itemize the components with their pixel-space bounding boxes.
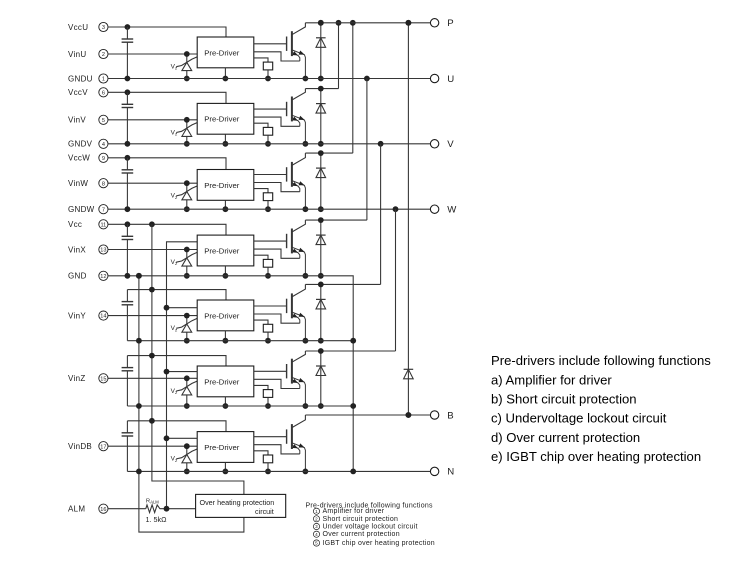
- svg-text:Pre-Driver: Pre-Driver: [204, 311, 239, 320]
- pin 11 Vcc: [68, 220, 108, 229]
- svg-text:VinY: VinY: [68, 311, 86, 320]
- zener diode VzY: [171, 313, 198, 344]
- wire VinX line: [108, 249, 197, 251]
- svg-text:VinW: VinW: [68, 179, 88, 188]
- diode DV (freewheel): [316, 86, 326, 147]
- wire VinZ line: [108, 377, 197, 379]
- wire VinY line: [108, 315, 197, 317]
- svg-text:VinX: VinX: [68, 245, 86, 254]
- wire DB emitter-drive route: [254, 445, 300, 454]
- svg-text:2: 2: [315, 517, 318, 522]
- capacitor CDB: [122, 421, 134, 472]
- wire VccV rail: [108, 91, 127, 93]
- wire GNDW / W output rail: [108, 208, 430, 210]
- wire Z collector feed from upper rail: [395, 209, 397, 351]
- terminal W: [430, 205, 457, 216]
- svg-text:circuit: circuit: [255, 507, 274, 516]
- capacitor CX: [122, 224, 134, 275]
- svg-text:Pre-Driver: Pre-Driver: [204, 115, 239, 124]
- svg-text:7: 7: [102, 207, 105, 213]
- svg-text:d) Over current protection: d) Over current protection: [491, 430, 640, 445]
- svg-text:N: N: [447, 467, 454, 478]
- svg-text:11: 11: [100, 222, 106, 228]
- wire W emitter-drive route: [254, 183, 300, 192]
- pin 7 GNDW: [68, 205, 108, 214]
- zener diode VzU: [171, 51, 198, 81]
- svg-text:IGBT chip over heating protect: IGBT chip over heating protection: [323, 540, 435, 547]
- svg-text:VinV: VinV: [68, 116, 86, 125]
- svg-text:VccU: VccU: [68, 23, 88, 32]
- node W collector bus: [305, 152, 352, 154]
- svg-text:3: 3: [102, 25, 105, 31]
- wire ALM node to overheat box: [160, 508, 196, 510]
- transistor QY (IGBT): [254, 284, 308, 343]
- svg-text:ALM: ALM: [68, 505, 85, 514]
- node X collector bus: [305, 219, 367, 221]
- diode DU (freewheel): [316, 20, 326, 82]
- wire ALM bus: [167, 242, 198, 509]
- wire GNDU / U output rail: [108, 78, 430, 80]
- wire Vcc feed row DB: [127, 421, 226, 432]
- wire GND/X emitter rail to N bus: [108, 276, 353, 472]
- svg-text:2: 2: [102, 52, 105, 58]
- zener diode VzX: [171, 247, 198, 279]
- capacitor CY: [122, 290, 134, 341]
- svg-text:12: 12: [100, 274, 106, 280]
- svg-text:GNDV: GNDV: [68, 140, 93, 149]
- wire ALM lead: [108, 508, 146, 510]
- svg-text:VinU: VinU: [68, 50, 86, 59]
- svg-text:Over current protection: Over current protection: [323, 531, 400, 538]
- svg-text:1. 5kΩ: 1. 5kΩ: [146, 515, 168, 524]
- resistor RsV (current sense): [254, 123, 273, 147]
- svg-text:Over heating protection: Over heating protection: [200, 498, 275, 507]
- wire Vcc bus (lower arms): [152, 224, 244, 494]
- wire X collector feed from upper rail: [366, 79, 368, 221]
- svg-text:b) Short circuit protection: b) Short circuit protection: [491, 392, 637, 407]
- wire P feed to W collector: [352, 23, 354, 153]
- terminal V: [430, 139, 454, 150]
- op-amp PDZ (Pre-Driver block): [197, 366, 254, 397]
- wire V emitter-drive route: [254, 117, 300, 126]
- wire ALM tap row DB: [167, 437, 198, 439]
- zener diode VzDB: [171, 443, 198, 474]
- wire GNDV / V output rail: [108, 143, 430, 145]
- svg-text:U: U: [447, 74, 454, 85]
- transistor QZ (IGBT): [254, 351, 308, 409]
- svg-text:VccW: VccW: [68, 154, 90, 163]
- svg-text:14: 14: [100, 314, 106, 320]
- svg-text:VccV: VccV: [68, 88, 88, 97]
- op-amp PDDB (Pre-Driver block): [197, 432, 254, 463]
- capacitor CV: [122, 92, 134, 144]
- svg-text:GNDW: GNDW: [68, 205, 95, 214]
- wire U emitter-drive route: [254, 52, 300, 61]
- svg-text:5: 5: [315, 541, 318, 546]
- pin 17 VinDB: [68, 442, 108, 451]
- svg-text:V: V: [447, 139, 454, 150]
- wire VinU line: [108, 53, 197, 55]
- terminal B: [430, 410, 453, 421]
- svg-text:Short circuit protection: Short circuit protection: [323, 516, 399, 523]
- svg-text:Pre-drivers include following: Pre-drivers include following functions: [491, 353, 711, 368]
- wire VinDB line: [108, 445, 197, 447]
- op-amp PDU (Pre-Driver block): [197, 37, 254, 68]
- wire Z emitter-drive route: [254, 379, 300, 388]
- svg-text:GNDU: GNDU: [68, 74, 93, 83]
- svg-text:e) IGBT chip over heating prot: e) IGBT chip over heating protection: [491, 449, 701, 464]
- pin 12 GND: [68, 271, 108, 280]
- terminal P: [430, 18, 453, 29]
- svg-text:Pre-Driver: Pre-Driver: [204, 48, 239, 57]
- note small text block (pre-driver functions): [306, 502, 435, 547]
- pin 14 VinY: [68, 311, 108, 320]
- pin 4 GNDV: [68, 139, 108, 148]
- svg-text:c) Undervoltage lockout circui: c) Undervoltage lockout circuit: [491, 411, 667, 426]
- pin 3 VccU: [68, 22, 108, 31]
- svg-text:B: B: [447, 410, 453, 421]
- zener diode VzV: [171, 117, 198, 147]
- pin 2 VinU: [68, 49, 108, 58]
- resistor RsDB (current sense): [254, 451, 273, 475]
- wire pre-driver X ground pin: [224, 266, 226, 276]
- wire pre-driver V ground pin: [224, 134, 226, 144]
- pin 5 VinV: [68, 115, 108, 124]
- node Z collector bus: [305, 350, 395, 352]
- zener diode VzW: [171, 180, 198, 212]
- diode DX (freewheel): [316, 217, 326, 278]
- wire ALM tap row Y: [167, 307, 198, 309]
- svg-text:GND: GND: [68, 272, 87, 281]
- wire VccV feed to pre-driver: [127, 92, 226, 103]
- svg-text:4: 4: [102, 142, 105, 148]
- capacitor CU: [122, 27, 134, 79]
- diode DDB (brake) (freewheel): [404, 20, 414, 418]
- wire B rail: [305, 414, 430, 416]
- wire Vcc feed row Y: [127, 290, 226, 300]
- note text block (pre-driver functions): [491, 353, 711, 464]
- wire Z emitter rail: [127, 405, 353, 407]
- resistor RsU (current sense): [254, 58, 273, 82]
- resistor RsZ (current sense): [254, 385, 273, 409]
- svg-text:13: 13: [100, 248, 106, 254]
- wire pre-driver Z ground pin: [224, 397, 226, 406]
- op-amp PDV (Pre-Driver block): [197, 103, 254, 134]
- wire Y emitter-drive route: [254, 314, 300, 323]
- transistor QDB (IGBT): [254, 415, 308, 474]
- wire pre-driver DB ground pin: [224, 462, 226, 471]
- svg-text:W: W: [447, 205, 457, 216]
- wire VccU feed to pre-driver: [127, 27, 226, 37]
- terminal N: [430, 467, 454, 478]
- svg-text:Pre-Driver: Pre-Driver: [204, 377, 239, 386]
- wire N rail / DB emitter rail: [127, 470, 430, 472]
- svg-text:1: 1: [102, 77, 105, 83]
- resistor RsW (current sense): [254, 189, 273, 213]
- wire VinV line: [108, 119, 197, 121]
- svg-text:a) Amplifier for driver: a) Amplifier for driver: [491, 372, 612, 387]
- resistor RsY (current sense): [254, 320, 273, 344]
- svg-text:3: 3: [315, 524, 318, 529]
- wire VccW rail: [108, 157, 127, 159]
- pin 6 VccV: [68, 88, 108, 97]
- wire X emitter-drive route: [254, 249, 300, 258]
- svg-text:ALM: ALM: [150, 499, 159, 504]
- node Y collector bus: [305, 283, 380, 285]
- svg-text:16: 16: [100, 507, 106, 513]
- wire P bus: [305, 22, 430, 24]
- svg-text:8: 8: [102, 181, 105, 187]
- zener diode VzZ: [171, 375, 198, 409]
- svg-text:5: 5: [102, 118, 105, 124]
- resistor RALM 1.5k: [146, 505, 160, 513]
- wire pre-driver U ground pin: [224, 68, 226, 79]
- svg-text:17: 17: [100, 444, 106, 450]
- wire pre-driver W ground pin: [224, 200, 226, 209]
- op-amp PDY (Pre-Driver block): [197, 300, 254, 331]
- transistor QV (IGBT): [254, 89, 308, 147]
- svg-text:Under voltage lockout circuit: Under voltage lockout circuit: [323, 524, 418, 531]
- pin 16 ALM: [99, 504, 108, 513]
- pin 15 VinZ: [68, 374, 108, 383]
- wire Y emitter rail: [127, 340, 353, 342]
- transistor QU (IGBT): [254, 23, 308, 82]
- svg-text:Pre-Driver: Pre-Driver: [204, 246, 239, 255]
- svg-text:Pre-Driver: Pre-Driver: [204, 443, 239, 452]
- capacitor CW: [122, 158, 134, 209]
- over-heating protection circuit U8: [196, 494, 286, 517]
- pin 1 GNDU: [68, 74, 108, 83]
- svg-text:VinDB: VinDB: [68, 442, 92, 451]
- wire Vcc feed row Z: [127, 356, 226, 366]
- transistor QX (IGBT): [254, 220, 308, 279]
- node V collector bus: [305, 88, 338, 90]
- wire ALM tap row Z: [167, 371, 198, 373]
- wire GND bus (lower arms): [139, 276, 244, 532]
- svg-text:6: 6: [102, 90, 105, 96]
- wire Y collector feed from upper rail: [380, 144, 382, 285]
- diode DZ (freewheel): [316, 348, 326, 409]
- svg-text:1: 1: [315, 509, 318, 514]
- svg-text:Vcc: Vcc: [68, 220, 82, 229]
- wire Vcc feed to pre-driver X: [127, 224, 226, 235]
- diode DY (freewheel): [316, 282, 326, 344]
- wire VinW line: [108, 182, 197, 184]
- svg-text:Amplifier for driver: Amplifier for driver: [323, 508, 385, 515]
- pin 8 VinW: [68, 179, 108, 188]
- svg-text:4: 4: [315, 532, 318, 537]
- wire pre-driver Y ground pin: [224, 331, 226, 341]
- transistor QW (IGBT): [254, 153, 308, 212]
- wire VccU rail: [108, 26, 127, 28]
- capacitor CZ: [122, 356, 134, 406]
- svg-text:VinZ: VinZ: [68, 374, 86, 383]
- svg-text:Pre-Driver: Pre-Driver: [204, 181, 239, 190]
- svg-text:P: P: [447, 18, 453, 29]
- diode DW (freewheel): [316, 150, 326, 212]
- pin 9 VccW: [68, 153, 108, 162]
- wire P feed to V collector: [338, 23, 340, 89]
- svg-text:9: 9: [102, 156, 105, 162]
- resistor RsX (current sense): [254, 255, 273, 278]
- wire VccW feed to pre-driver: [127, 158, 226, 170]
- pin 13 VinX: [68, 245, 108, 254]
- op-amp PDX (Pre-Driver block): [197, 235, 254, 266]
- terminal U: [430, 74, 454, 85]
- op-amp PDW (Pre-Driver block): [197, 170, 254, 201]
- wire Vcc rail: [108, 223, 127, 225]
- svg-text:15: 15: [100, 376, 106, 382]
